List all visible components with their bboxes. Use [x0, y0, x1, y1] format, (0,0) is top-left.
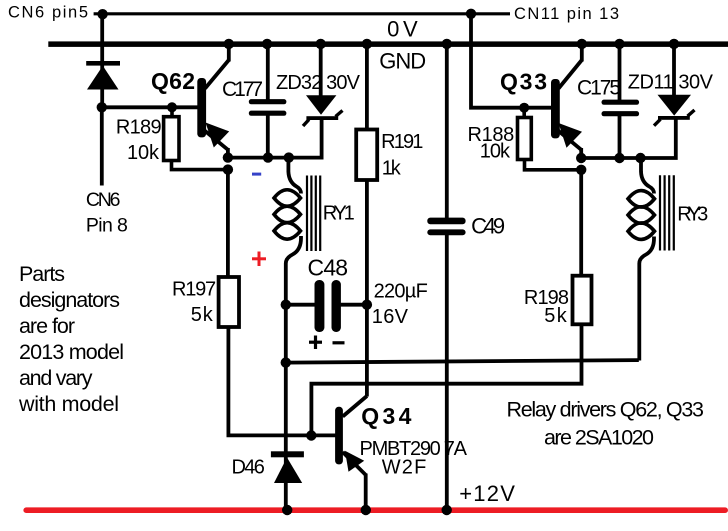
diode D46 — [271, 451, 304, 483]
node Q62 collector rail dot — [224, 39, 234, 49]
label R189 10k — [116, 116, 162, 164]
wire CN6 pin5 vertical — [100, 14, 104, 107]
resistor R198 — [573, 170, 592, 325]
svg-text:C48: C48 — [308, 255, 349, 281]
capacitor C175 — [602, 44, 640, 158]
label R197 5k — [172, 279, 216, 326]
relay coil RY1 — [274, 158, 301, 307]
label C48 polarity + - — [309, 336, 345, 350]
node R188 top dot — [519, 103, 529, 113]
svg-text:with model: with model — [18, 392, 119, 416]
wire Q62 collector to rail — [227, 43, 231, 62]
wire line2 R198 to Q34 base — [311, 325, 581, 436]
svg-text:RY1: RY1 — [323, 203, 355, 225]
zener ZD32 — [303, 44, 343, 126]
resistor R188 — [518, 118, 532, 160]
label D46 — [232, 457, 265, 479]
svg-text:C49: C49 — [471, 214, 505, 239]
label C175 — [577, 76, 621, 99]
label R198 5k — [524, 287, 569, 327]
node C49 rail dot — [442, 39, 452, 49]
label W2F — [382, 457, 427, 479]
label Q34 — [361, 403, 411, 429]
wire R189 bottom lead — [172, 160, 228, 170]
resistor R197 — [219, 277, 239, 327]
label CN6 Pin 8 — [86, 189, 128, 237]
svg-text:CN6: CN6 — [86, 189, 121, 211]
relay core RY1 hatch — [307, 176, 320, 252]
wire R197 chain from R189 bottom to Q34 base — [226, 170, 230, 277]
svg-text:RY3: RY3 — [677, 203, 708, 225]
label PMBT290 7A — [360, 438, 468, 460]
wire R188 top lead — [522, 108, 526, 118]
node D46 rail dot — [282, 505, 292, 515]
node CN6 pin5 junction dot — [97, 9, 107, 19]
capacitor C48 — [286, 280, 367, 332]
svg-text:are for: are for — [19, 314, 75, 338]
svg-text:10k: 10k — [480, 141, 511, 163]
node line1 junction dot — [281, 357, 291, 367]
svg-text:5k: 5k — [544, 305, 568, 327]
node diode anode junction dot — [97, 102, 107, 112]
transistor Q34 — [335, 396, 367, 475]
svg-text:ZD32 30V: ZD32 30V — [276, 72, 361, 94]
svg-text:designators: designators — [19, 288, 120, 312]
wire top CN6 pin5 to CN11 pin 13 — [94, 12, 510, 15]
svg-text:R191: R191 — [381, 131, 423, 153]
node C177 bottom dot — [263, 152, 273, 162]
node R188 bottom dot — [576, 165, 586, 175]
resistor R191 — [356, 44, 377, 305]
svg-text:CN11 pin 13: CN11 pin 13 — [514, 5, 619, 23]
node Q33 emitter dot — [576, 153, 586, 163]
wire R197 bottom to Q34 base — [228, 327, 335, 435]
relay coil RY3 — [628, 158, 655, 361]
label RY1 — [323, 203, 355, 225]
wire Q33 emitter drop — [579, 148, 583, 160]
wire Q62 base — [102, 105, 198, 109]
wire Q33 collector to rail — [580, 43, 584, 62]
wire line1 RY1 node to RY3 bottom — [286, 360, 639, 363]
label minus blue — [252, 173, 261, 176]
node C48 left dot — [281, 300, 291, 310]
label Q62 — [151, 68, 195, 94]
wire R188 bottom lead — [525, 159, 582, 170]
label Relay drivers note — [507, 398, 705, 450]
svg-text:and vary: and vary — [19, 366, 93, 390]
node CN11 junction dot — [466, 9, 476, 19]
svg-text:Q34: Q34 — [361, 403, 411, 429]
svg-text:C177: C177 — [222, 78, 263, 101]
node Q34 base dot — [306, 430, 316, 440]
svg-text:Relay drivers Q62, Q33: Relay drivers Q62, Q33 — [507, 398, 705, 422]
wire R189 top lead — [170, 107, 174, 117]
node R189 bottom dot — [223, 164, 233, 174]
node C49 rail dot bottom — [442, 505, 452, 515]
node C175 rail dot — [614, 39, 624, 49]
svg-text:Q33: Q33 — [500, 69, 547, 95]
svg-text:D46: D46 — [232, 457, 265, 479]
label CN11 pin 13 — [514, 5, 619, 23]
0V rail — [48, 41, 728, 47]
zener ZD11 — [654, 44, 695, 126]
node Q33 collector rail dot — [577, 39, 587, 49]
svg-text:R197: R197 — [172, 279, 216, 301]
wire to CN6 Pin 8 — [100, 107, 104, 185]
label 0V — [387, 16, 418, 41]
label 220uF 16V — [372, 281, 428, 328]
wire node line left (relay RY1 bus) — [228, 119, 322, 158]
svg-text:10k: 10k — [127, 142, 160, 164]
transistor Q33 — [551, 60, 582, 150]
label plus red — [252, 252, 266, 267]
svg-text:2013 model: 2013 model — [19, 340, 124, 364]
label GND — [379, 49, 426, 74]
wire Q62 emitter drop — [226, 148, 230, 160]
svg-text:ZD11 30V: ZD11 30V — [628, 71, 714, 93]
relay core RY3 hatch — [660, 175, 674, 250]
capacitor C49 — [427, 44, 465, 510]
node R189 top dot — [167, 102, 177, 112]
capacitor C177 — [249, 44, 287, 158]
node C48 right dot — [362, 300, 372, 310]
wire Q34 emitter to rail — [364, 474, 368, 511]
node ZD11 rail dot — [669, 39, 679, 49]
diode CN6 (top-left) — [86, 61, 120, 90]
wire CN11 to Q33 base — [471, 14, 552, 108]
wire node line right (relay RY3 bus) — [581, 119, 676, 158]
label Q33 — [500, 69, 547, 95]
node R191 rail dot — [362, 39, 372, 49]
svg-text:16V: 16V — [372, 306, 409, 328]
label C177 — [222, 78, 263, 101]
wire D46 vertical — [284, 305, 288, 510]
label CN6 pin5 — [8, 4, 88, 22]
label C48 — [308, 255, 349, 281]
node RY3 top dot — [635, 153, 645, 163]
svg-text:R189: R189 — [116, 116, 162, 138]
svg-text:Pin 8: Pin 8 — [86, 215, 128, 237]
resistor R189 — [164, 117, 179, 161]
wire Q34 collector — [365, 305, 369, 397]
svg-text:W2F: W2F — [382, 457, 427, 479]
svg-text:Q62: Q62 — [151, 68, 195, 94]
label RY3 — [677, 203, 708, 225]
node C177 rail dot — [262, 39, 272, 49]
svg-text:0V: 0V — [387, 16, 418, 41]
label +12V — [459, 481, 515, 506]
label R191 1k — [381, 131, 423, 179]
label R188 10k — [468, 124, 515, 163]
transistor Q62 — [197, 60, 229, 150]
svg-text:+12V: +12V — [459, 481, 515, 506]
svg-text:Parts: Parts — [19, 262, 65, 286]
svg-text:GND: GND — [379, 49, 426, 74]
+12V rail red — [23, 507, 728, 513]
svg-text:C175: C175 — [577, 76, 621, 99]
label C49 — [471, 214, 505, 239]
node ZD32 rail dot — [316, 39, 326, 49]
label ZD32 30V — [276, 72, 361, 94]
node C175 bottom dot — [614, 153, 624, 163]
svg-text:5k: 5k — [191, 304, 214, 326]
label Parts designators note — [18, 262, 124, 416]
label ZD11 30V — [628, 71, 714, 93]
svg-text:220µF: 220µF — [374, 281, 428, 303]
node Q34 emitter rail dot — [361, 505, 371, 515]
node Q62 emitter dot — [223, 152, 233, 162]
node RY1 top dot — [284, 152, 294, 162]
svg-text:are 2SA1020: are 2SA1020 — [544, 426, 654, 450]
svg-text:1k: 1k — [382, 158, 402, 180]
